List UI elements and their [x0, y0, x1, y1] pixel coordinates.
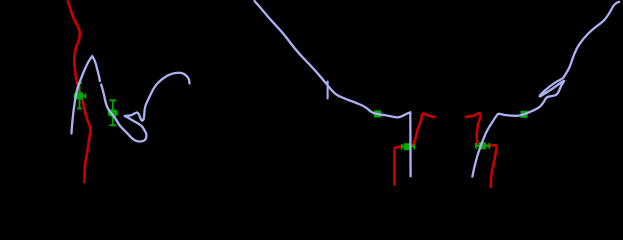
green square point R3 (descending branch): [374, 110, 381, 117]
green marker R2: x-error bar: [476, 143, 490, 149]
red hook 2 (bottom centre right): [466, 113, 497, 187]
red hook 1 (bottom centre): [394, 113, 434, 184]
green marker L2: y-error bar: [109, 100, 117, 125]
green marker L1: square point: [76, 93, 83, 100]
blue trajectory left: ascent to peak, zigzag through L2, lower curl, hairpin, wiggle, U-turn, arc to end: [72, 56, 190, 141]
green marker R1: x-error bar: [402, 144, 415, 150]
green marker L2: square point: [109, 110, 116, 117]
red trajectory left (R-left): [68, 2, 91, 183]
blue vertical tick on descending branch: [327, 82, 329, 99]
blue trajectory right: rising diagonal, dip, ascent with hairpin loop to top right: [472, 2, 619, 177]
green marker R1: square point: [404, 143, 411, 150]
green marker L1: y-error bar: [75, 83, 86, 109]
green square point R4 (ascending branch): [521, 111, 528, 118]
blue trajectory right: descending branch with corner and vertical drop: [255, 1, 411, 176]
green marker R2: square point: [479, 142, 486, 149]
